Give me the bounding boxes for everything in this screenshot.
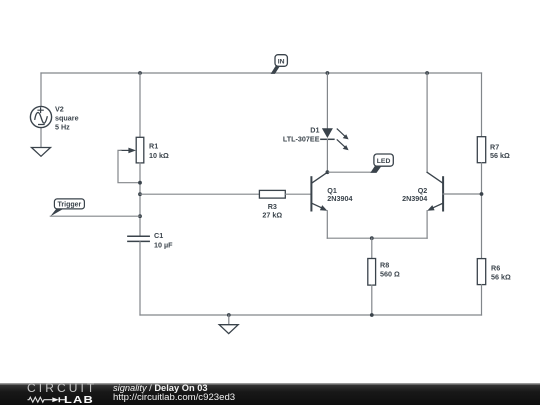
footer bar	[0, 383, 540, 405]
label R8 560 Ohm	[380, 261, 400, 279]
svg-text:56 kΩ: 56 kΩ	[490, 151, 510, 160]
resistor R3	[259, 190, 285, 198]
label C1 10 uF	[154, 231, 173, 250]
label R7 56 kOhm	[490, 143, 510, 161]
resistor R6	[477, 259, 485, 285]
wire Q1 emitter down	[326, 211, 328, 239]
CircuitLab logo LAB	[64, 394, 94, 406]
svg-text:LED: LED	[377, 158, 391, 165]
wire R8 bottom stem	[371, 285, 373, 315]
node base junction right rail	[480, 192, 484, 196]
wire R7 to junction	[481, 163, 483, 259]
transistor Q2	[427, 172, 443, 210]
wire Q2 base to rail	[443, 193, 481, 195]
node base-wire junction	[138, 192, 142, 196]
wire C1 bottom	[139, 242, 141, 315]
svg-text:IN: IN	[278, 58, 285, 65]
wire V2 bottom stem	[40, 128, 42, 148]
node Q2 collector branch top	[425, 71, 429, 75]
node ground junction	[227, 313, 231, 317]
svg-text:27 kΩ: 27 kΩ	[262, 211, 282, 220]
resistor R1 (potentiometer)	[121, 137, 144, 163]
label Q2 2N3904	[402, 186, 427, 203]
wire V2 top stem	[40, 73, 42, 107]
svg-text:5 Hz: 5 Hz	[55, 123, 70, 132]
wire emitter rail	[327, 237, 427, 239]
svg-text:V2: V2	[55, 105, 64, 114]
wire to LED flag	[327, 171, 370, 173]
wire top rail	[41, 72, 482, 74]
node trigger junction	[138, 214, 142, 218]
wire R1 bottom to C1	[139, 163, 141, 236]
wire R3 to Q1 base	[285, 193, 311, 195]
wire R6 bottom to rail	[481, 285, 483, 315]
svg-text:R6: R6	[491, 264, 500, 273]
wire R3 left	[140, 193, 259, 195]
wire D1 to collector node	[326, 139, 328, 172]
svg-text:10 kΩ: 10 kΩ	[149, 151, 169, 160]
svg-text:C1: C1	[154, 231, 163, 240]
ground center	[219, 315, 238, 334]
capacitor C1	[128, 236, 149, 241]
label V2 square 5 Hz	[55, 105, 79, 132]
wire R8 top stem	[371, 238, 373, 258]
svg-text:LTL-307EE: LTL-307EE	[283, 135, 320, 144]
flag IN	[271, 55, 288, 74]
wire trigger to C1 branch	[50, 215, 140, 217]
svg-text:R1: R1	[149, 142, 158, 151]
node emitter junction	[370, 236, 374, 240]
ground below V2	[32, 148, 51, 157]
label Q1 2N3904	[327, 186, 352, 203]
wire bottom rail	[140, 314, 482, 316]
wire R1 wiper loop	[118, 150, 140, 182]
footer url	[113, 393, 235, 402]
resistor R8	[368, 259, 376, 286]
svg-text:R8: R8	[380, 261, 389, 270]
svg-text:2N3904: 2N3904	[402, 194, 427, 203]
flag LED	[370, 154, 393, 173]
wire Q2 collector up	[426, 73, 428, 172]
svg-text:2N3904: 2N3904	[327, 194, 352, 203]
LED D1	[321, 128, 349, 150]
svg-text:Trigger: Trigger	[58, 202, 82, 209]
svg-text:square: square	[55, 114, 79, 123]
svg-text:D1: D1	[310, 126, 319, 135]
node Q1 collector junction	[326, 170, 330, 174]
wire R1 top	[139, 73, 141, 137]
wire Q2 emitter down	[426, 211, 428, 239]
footer title	[113, 384, 208, 392]
wire rail to D1	[326, 73, 328, 128]
wire right rail top	[481, 73, 483, 137]
label R1 10 kOhm	[149, 142, 169, 161]
CircuitLab logo word	[27, 381, 97, 395]
flag Trigger	[50, 199, 84, 217]
svg-text:10 µF: 10 µF	[154, 241, 173, 250]
svg-text:560 Ω: 560 Ω	[380, 270, 400, 279]
node wiper junction	[138, 181, 142, 185]
resistor R7	[477, 137, 485, 163]
svg-text:56 kΩ: 56 kΩ	[491, 273, 511, 282]
CircuitLab logo waveform	[27, 396, 67, 405]
transistor Q1	[311, 172, 327, 210]
node junction top of R1 branch	[138, 71, 142, 75]
node R8 bottom junction	[370, 313, 374, 317]
label R6 56 kOhm	[491, 264, 511, 282]
label R3 27 kOhm	[262, 202, 282, 220]
label D1 LTL-307EE	[283, 126, 320, 144]
voltage source V2	[30, 106, 51, 127]
node junction D1 branch top	[326, 71, 330, 75]
